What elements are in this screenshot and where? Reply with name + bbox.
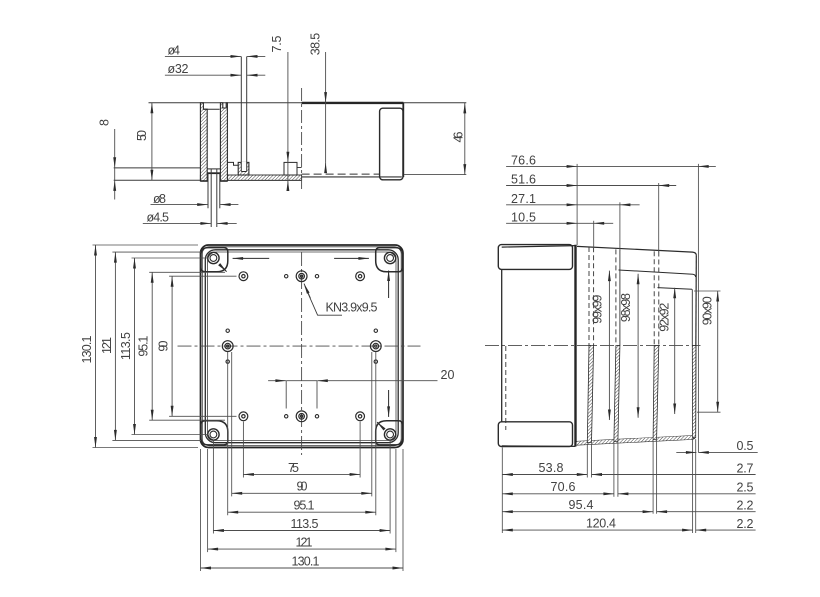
pillar right wall with top notch [220,103,227,181]
horizontal center line [485,345,701,347]
svg-text:7.5: 7.5 [270,35,284,52]
svg-text:95.1: 95.1 [137,336,151,357]
dimension 70.6 / 2.5 [502,493,614,495]
wall plane line lower [114,179,302,181]
dimension o8 [151,204,208,206]
svg-text:90x90: 90x90 [700,296,714,325]
dimension 27.1 [506,204,577,206]
lid top edge thick [302,102,404,104]
edge-center screw bosses KN3.9 [222,271,381,422]
svg-text:130.1: 130.1 [292,554,320,568]
left dimension 130.1 [95,245,97,448]
svg-text:113.5: 113.5 [119,332,133,360]
dimension 120.4 / 2.2 [502,529,692,531]
wall B section hatch [614,346,620,442]
horizontal double arrow top [233,257,270,259]
svg-text:113.5: 113.5 [291,517,319,531]
lid bottom edge [302,176,402,178]
svg-text:8: 8 [98,119,112,126]
pillar counterbore bottom line [203,108,219,110]
small flanking holes [226,275,377,418]
wall A hidden dashed pair [588,247,590,346]
svg-text:46: 46 [452,131,466,142]
lid top edge [502,246,576,248]
dimension o4.5 [143,222,211,224]
latch on lid [380,108,403,180]
svg-text:2.7: 2.7 [737,461,754,475]
svg-text:10.5: 10.5 [511,210,536,224]
svg-text:120.4: 120.4 [586,517,616,531]
bottom dimension 113.5 [213,530,390,532]
dimension 10.5 [506,222,577,224]
dim line continuations [325,103,327,163]
mounting bosses 75x90 grid [239,272,365,421]
dimension o32 [165,74,241,76]
bottom extension lines [201,352,404,571]
wall plane line upper [114,167,201,169]
svg-text:38.5: 38.5 [309,33,323,56]
dimension 95.4 / 2.2 [502,511,653,513]
base bottom edge [577,436,695,445]
corner pad BL [201,421,228,445]
svg-text:75: 75 [288,461,299,475]
corner pad TR [376,248,403,272]
wall D section hatch [692,346,696,438]
corner pad BR [376,421,403,445]
lid outer face [501,269,503,421]
wall C hidden dashed pair [653,251,655,345]
left dimension 113.5 [134,258,136,435]
svg-text:70.6: 70.6 [551,480,576,494]
lid right edge [402,103,404,177]
center line dash-dot [301,88,303,192]
wall C section hatch [653,346,659,440]
svg-text:90: 90 [297,480,308,494]
svg-text:76.6: 76.6 [511,153,536,167]
svg-text:50: 50 [135,130,149,141]
svg-text:27.1: 27.1 [511,192,536,206]
top extension verticals [577,164,698,453]
pillar left wall [200,103,207,181]
svg-text:ø4: ø4 [168,44,181,58]
dimension 8 [114,129,116,168]
46 extension line [404,174,467,176]
vertical double arrow right [388,271,390,299]
step edge line [619,270,696,277]
svg-text:121: 121 [296,536,313,550]
step tick line [297,167,302,169]
svg-text:ø8: ø8 [153,192,166,206]
label KN3.9x9.5 with leader [305,287,342,316]
svg-text:92x92: 92x92 [657,303,671,332]
wall D inner edge [691,289,693,345]
inner size 98x98 [637,274,639,418]
wall A section hatch [587,346,593,443]
left dimension 121 [114,252,116,440]
screw hole o4.5 lines [210,169,212,227]
bottom dimension 130.1 [201,567,404,569]
svg-text:KN3.9x9.5: KN3.9x9.5 [326,301,378,315]
rod boss hatched [238,162,249,175]
step edge line 2 [658,288,693,290]
svg-text:130.1: 130.1 [80,335,94,363]
left extension lines [93,245,237,448]
rod o4 lines [240,56,242,171]
dimension 7.5 [287,52,289,162]
bottom dimension 95.1 [228,511,376,513]
bottom dimension 75 [243,473,360,475]
base top edge [577,246,696,255]
90x90 extension lines [694,290,721,292]
lid latch top [498,245,572,270]
inner size 99x99 [608,271,610,420]
lid bottom edge [502,445,576,448]
dimension 51.6 [506,185,577,187]
bottom extension verticals [502,439,695,533]
center lines dash-dot [178,345,421,347]
inner size 92x92 [674,288,676,414]
base inner floor line [577,436,693,442]
mini step right of pillar [227,162,238,165]
svg-text:98x98: 98x98 [619,293,633,322]
left dimension 90 [171,276,173,416]
svg-text:53.8: 53.8 [539,461,564,475]
dimension 0.5 [676,451,696,453]
svg-text:2.2: 2.2 [737,499,754,513]
svg-text:ø32: ø32 [168,62,189,76]
dimension 46 [464,103,466,175]
dimension 38.5 [325,52,327,103]
screw hole o8 lines [207,173,209,208]
rod slot [241,162,246,172]
dimension o4 [165,55,241,57]
svg-text:0.5: 0.5 [737,439,754,453]
svg-text:ø4.5: ø4.5 [147,211,170,225]
left dimension 95.1 [151,272,153,420]
pillar screw seat [208,173,220,181]
bottom dimension 121 [208,548,396,550]
base right edge [694,255,697,436]
20 extension lines [285,381,287,409]
center step block [284,162,297,175]
lid hidden bottom dashed [302,173,380,175]
wall B lines [615,249,617,345]
diagonal arrow BR pad [377,422,383,428]
floor hatch band [577,436,693,445]
svg-text:95.4: 95.4 [569,498,594,512]
inner wall rounded square [205,250,398,443]
diagonal arrow TL pad [221,266,227,272]
parting edge thick [574,245,576,447]
lid inner hidden line [505,346,507,430]
svg-text:99x99: 99x99 [590,295,604,324]
base plate hatched [200,175,301,180]
svg-text:95.1: 95.1 [294,499,315,513]
lid latch bottom [498,422,572,447]
svg-text:51.6: 51.6 [511,173,536,187]
bottom dimension 90 [232,492,372,494]
corner pad TL [201,248,228,272]
dimension 53.8 / 2.7 [502,474,587,476]
svg-text:90: 90 [157,341,171,352]
svg-text:121: 121 [100,337,114,354]
dimension 20 [268,380,286,382]
svg-text:2.5: 2.5 [737,481,754,495]
inner size 90x90 [717,291,719,412]
svg-text:2.2: 2.2 [737,517,754,531]
mounting plane top line [149,102,467,104]
outer square body [201,245,404,448]
dimension 76.6 [506,165,577,167]
pillar bottom edge [200,180,208,182]
svg-text:20: 20 [441,368,455,382]
dimension 50 [151,103,153,181]
